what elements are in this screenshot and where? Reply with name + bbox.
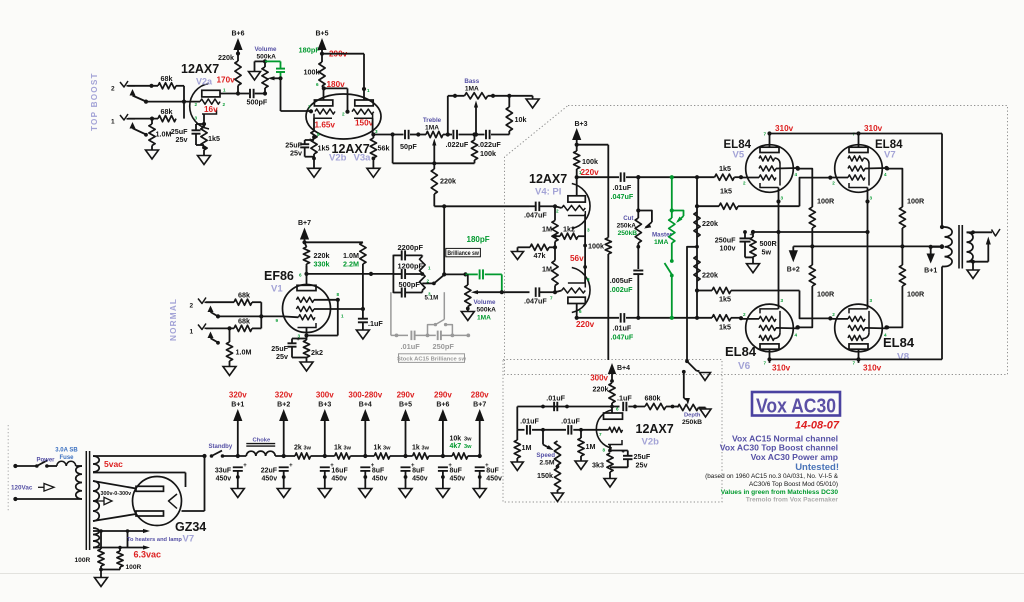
svg-text:500pF: 500pF [399, 280, 421, 289]
EL84 V7 cathode [849, 183, 870, 204]
wire up to bass rail [447, 96, 449, 135]
svg-text:V4: PI: V4: PI [535, 187, 561, 198]
V4 upper grid [562, 205, 586, 210]
label .01uF chain1 [520, 417, 539, 426]
svg-text:68k: 68k [238, 291, 250, 300]
svg-text:250kB: 250kB [682, 419, 702, 426]
label GZ34 [175, 520, 206, 534]
svg-text:2k2: 2k2 [311, 348, 323, 357]
svg-text:500kA: 500kA [477, 307, 497, 314]
potentiometer Cut 250k [635, 175, 652, 243]
ground tremolo cathode [604, 472, 616, 487]
svg-text:1200pF: 1200pF [398, 261, 424, 270]
resistor 1k5 V2a cathode [201, 127, 207, 150]
label 500pF [247, 98, 268, 107]
label 220k PI feed [440, 177, 456, 186]
svg-text:100R: 100R [75, 557, 91, 564]
transformer T1 primary winding [76, 466, 82, 499]
svg-text:.1uF: .1uF [617, 394, 632, 403]
svg-text:3w: 3w [344, 446, 352, 452]
B+ supply arrow B+6 [233, 38, 242, 56]
ground 1.0M normal [223, 361, 236, 376]
label .047uF upper [524, 211, 547, 220]
svg-text:.01uF: .01uF [401, 342, 421, 351]
wire bass rail left [448, 94, 465, 98]
bass wiper arrow [474, 101, 478, 137]
speaker hot arrow [986, 237, 991, 262]
EL84 pin 7 labels [764, 132, 856, 366]
svg-text:.047uF: .047uF [524, 297, 547, 306]
svg-text:2: 2 [195, 102, 198, 107]
resistor 220k tremolo plate load [609, 383, 615, 413]
label 12AX7 V2a [181, 62, 219, 76]
label 8uF 450v [412, 467, 428, 482]
svg-text:3w: 3w [304, 446, 312, 452]
EL84 V6 cathode [760, 304, 779, 314]
svg-text:100k: 100k [480, 149, 496, 158]
resistor 10k tone stack top [506, 96, 512, 135]
resistor 10k 3w (4k7 3w) [452, 453, 468, 459]
svg-text:3: 3 [870, 196, 873, 201]
svg-text:100R: 100R [907, 197, 925, 206]
input jack 2 top boost [120, 81, 136, 96]
resistor 68k normal jack2 [234, 299, 252, 305]
svg-text:25v: 25v [276, 352, 288, 361]
EF86 cathode lead [298, 328, 309, 341]
label 290v at B+6 [434, 391, 452, 400]
resistor 1k5 V7 grid stopper [719, 203, 800, 209]
volume wiper arrow [268, 76, 281, 80]
svg-text:.1uF: .1uF [368, 319, 383, 328]
resistor 100R V6 screen [796, 265, 816, 330]
wire bottom chain start [517, 429, 524, 431]
label jack 2 top boost [111, 86, 115, 93]
capacitor .01uF tremolo chain2 [568, 425, 571, 435]
label V2b tremolo [642, 437, 660, 448]
EL84 V7 control grid g1 [830, 175, 865, 180]
input jack 1 top boost [120, 114, 136, 129]
svg-text:.01uF: .01uF [520, 417, 539, 426]
svg-text:To heaters and lamp: To heaters and lamp [127, 537, 182, 543]
label V2a [196, 77, 213, 87]
B+2 supply arrow down [789, 246, 798, 262]
svg-text:9: 9 [276, 318, 279, 323]
label 8uF 450v [372, 467, 388, 482]
svg-text:310v: 310v [772, 364, 791, 373]
gray stock brilliance switch bypass [428, 292, 453, 335]
resistor 1.0M top boost input [149, 119, 155, 146]
wire B+3 to tail resistor [577, 145, 609, 238]
label 1M upper [542, 225, 552, 234]
wire V2b cathode down [312, 118, 316, 139]
label .022uF second [478, 140, 501, 149]
EL84 pin 4 labels [795, 172, 888, 338]
capacitor 500pF coupling [250, 89, 254, 98]
label Untested! [795, 462, 839, 473]
label 1k2 [563, 225, 575, 234]
svg-text:450v: 450v [486, 475, 502, 482]
pin 2 V3a grid [342, 112, 345, 117]
EF86 grid3 [296, 297, 314, 302]
label 220v PI lower [576, 320, 595, 329]
svg-text:320v: 320v [229, 391, 247, 400]
EL84 pin 2 labels [743, 181, 835, 318]
wire PI lower output [577, 317, 619, 319]
label V1 [271, 284, 283, 295]
V2a grid [200, 99, 220, 104]
svg-text:3: 3 [870, 298, 873, 303]
svg-text:310v: 310v [775, 124, 794, 133]
label 100R V6 [817, 290, 835, 299]
svg-text:(based on 1960 AC15 no.3 0A/03: (based on 1960 AC15 no.3 0A/031, No. V-I… [705, 473, 839, 480]
label .022uF first [446, 140, 469, 149]
label 680k [645, 394, 661, 403]
label Standby [209, 444, 233, 450]
svg-text:B+7: B+7 [298, 220, 311, 227]
svg-text:Vox AC30: Vox AC30 [756, 395, 836, 418]
label 100R V7 [907, 197, 925, 206]
svg-text:300v-0-300v: 300v-0-300v [101, 491, 132, 497]
svg-text:150v: 150v [355, 119, 374, 128]
svg-text:1k: 1k [412, 445, 420, 452]
svg-text:Speed: Speed [536, 452, 555, 459]
wire bottom chain mid [532, 428, 583, 432]
wire plate rail bottom 310v [767, 357, 942, 361]
HT center tap arrow [93, 497, 112, 504]
EF86 control grid [276, 315, 316, 323]
svg-text:180pF: 180pF [467, 235, 490, 244]
gray stock brilliance feed wire [391, 292, 408, 337]
label 1.0M normal [236, 348, 252, 357]
tube 12AX7 V2a envelope arc [190, 84, 209, 129]
jack1 shunt lever [133, 128, 147, 134]
ground OT secondary [967, 262, 979, 279]
wire jack1 tip to 68k [128, 117, 158, 121]
fuse 3.0A SB [57, 461, 76, 466]
label 50pF [400, 142, 417, 151]
label Speed 2.5M [536, 452, 555, 467]
wire tone stack loop right [434, 162, 474, 164]
label date 14-08-07 [795, 420, 840, 432]
svg-text:Power: Power [37, 458, 56, 464]
capacitor .022uF second [486, 130, 490, 139]
label Choke [253, 438, 271, 444]
capacitor 500pF brilliance [393, 288, 422, 298]
svg-text:EL84: EL84 [725, 344, 757, 359]
svg-text:.005uF: .005uF [610, 276, 633, 285]
wire 68k normal join up [252, 316, 261, 328]
svg-text:2: 2 [342, 112, 345, 117]
svg-text:B+2: B+2 [787, 267, 800, 274]
label 1k5 V8 [719, 295, 731, 304]
label B+6 [231, 31, 244, 38]
ground 47k [512, 247, 531, 259]
label 100R V8 [907, 290, 925, 299]
ground EF86 cathode [300, 358, 313, 372]
svg-text:Volume: Volume [255, 46, 277, 53]
gray capacitor 250pF stock [438, 331, 441, 341]
label 1.0M 2.2M [343, 251, 359, 269]
label 100R V5 [817, 197, 835, 206]
labels 310v top [775, 124, 883, 133]
wire standby to choke [223, 454, 247, 458]
resistor 1.0M normal input [226, 328, 232, 361]
svg-text:100k: 100k [588, 242, 604, 251]
svg-text:7: 7 [764, 361, 767, 366]
resistor 500R 5w cathode bias [750, 232, 756, 257]
B+1 supply arrow down [927, 247, 935, 264]
svg-text:5w: 5w [762, 248, 772, 257]
svg-text:1k5: 1k5 [208, 134, 220, 143]
resistor 100k PI tail [605, 238, 611, 360]
label based on line2 [749, 481, 838, 488]
B+ supply arrow B+4 [361, 409, 370, 456]
svg-text:Treble: Treble [423, 117, 442, 124]
wire V2b plate to V3a grid [324, 88, 350, 113]
label Stock AC15 Brilliance sw box [397, 354, 467, 363]
V2a cathode [202, 110, 217, 115]
label 25uF 25v EF86 [271, 344, 288, 361]
label 1200pF [398, 261, 424, 270]
resistor 100R V5 screen [809, 207, 815, 246]
potentiometer Depth 250kB [678, 404, 699, 410]
potentiometer Bass 1MA [465, 93, 488, 99]
label 100k V2b plate load [304, 68, 320, 77]
V2b cathode [314, 114, 332, 119]
label .01uF stock gray [401, 342, 421, 351]
EL84 V7 screen g2 lead [848, 166, 889, 171]
EF86 plate lead [299, 266, 309, 285]
svg-text:V1: V1 [271, 284, 283, 295]
label 280v at B+7 [471, 391, 489, 400]
V2a plate box [202, 90, 220, 97]
label 1k 3w first [334, 445, 352, 452]
svg-text:12AX7: 12AX7 [181, 62, 219, 76]
svg-text:1: 1 [190, 329, 194, 336]
label values in green [721, 489, 839, 496]
resistor 100R V8 screen [885, 265, 905, 329]
wire jack1 tip to 68k normal [206, 326, 234, 330]
label tremolo from vox pacemaker [746, 497, 839, 504]
tube EL84 V6 envelope [746, 304, 794, 352]
resistor 1k 3w third [413, 453, 429, 459]
EL84 V7 plate lead [858, 134, 860, 148]
B+ supply arrow B+5 [401, 409, 410, 456]
resistor 2k 3w [295, 453, 311, 459]
output transformer core [959, 225, 962, 269]
svg-text:.01uF: .01uF [613, 183, 632, 192]
ground below 8uF cap [359, 471, 372, 498]
ground volume top terminal [249, 59, 268, 80]
label V6 [738, 361, 751, 372]
wire bottom rail to OT primary [941, 267, 943, 360]
jack2 shunt lever [133, 96, 147, 102]
svg-text:1k5: 1k5 [719, 295, 731, 304]
svg-text:TOP BOOST: TOP BOOST [90, 72, 99, 131]
label B+4 tremolo [617, 365, 630, 372]
capacitor 25uF 25v V2a cathode bypass [192, 124, 205, 145]
wire between 022 caps [459, 134, 485, 136]
gray wire to 250pF [415, 334, 436, 338]
svg-text:8: 8 [603, 448, 606, 453]
svg-text:2: 2 [111, 86, 115, 93]
node PI divider mid [553, 245, 557, 249]
tremolo dotted enclosure [503, 360, 722, 503]
wire rail B+4 segment [350, 454, 374, 458]
resistor 220k (330k) EF86 plate load [303, 242, 309, 274]
resistor 220k grid leak upper [694, 212, 700, 237]
svg-text:300v: 300v [316, 391, 334, 400]
label 1M tremolo right [586, 442, 596, 451]
svg-text:180pF: 180pF [299, 46, 321, 55]
label 68k normal jack1 [238, 317, 250, 326]
wire to V7 stopper [695, 204, 719, 208]
capacitor 25uF 25v EF86 cathode bypass [288, 337, 307, 358]
wire V2a cathode down [202, 114, 206, 127]
svg-text:100R: 100R [817, 290, 835, 299]
label 1M tremolo left [522, 443, 532, 452]
capacitor 1200pF [393, 269, 422, 279]
resistor 1.0M (2.2M) EF86 screen feed [360, 242, 366, 309]
label 12AX7 tremolo [636, 422, 674, 436]
wire rail B+2 segment [275, 454, 295, 458]
pin 8 tremolo [603, 448, 606, 453]
wire to PI upper input [434, 204, 529, 208]
switch depth enable [682, 359, 697, 373]
EL84 V5 g3 [759, 156, 780, 186]
label 2k2 [311, 348, 323, 357]
wire jack2 tip to 68k [128, 84, 158, 88]
svg-text:1: 1 [367, 88, 370, 93]
svg-text:1: 1 [341, 314, 344, 319]
svg-text:.047uF: .047uF [611, 192, 634, 201]
pin 3 V4 upper [587, 228, 590, 233]
wire rail B+7 segment [468, 454, 482, 458]
resistor 68k normal jack1 [234, 325, 252, 331]
tremolo plate box [604, 413, 623, 419]
label Cut 250kA 250kB [617, 215, 638, 237]
V2b plate box [314, 100, 332, 106]
transformer T1 core [86, 451, 89, 550]
svg-text:7: 7 [599, 432, 602, 437]
svg-text:EF86: EF86 [264, 269, 294, 283]
wire PI upper output [577, 176, 619, 178]
svg-text:68k: 68k [161, 107, 173, 116]
EL84 V7 g3 [848, 156, 869, 186]
potentiometer Volume 500kA top boost [262, 61, 268, 93]
svg-text:.022uF: .022uF [478, 140, 501, 149]
capacitor 8uF 450v at B+7 [475, 463, 489, 471]
svg-text:25v: 25v [176, 135, 188, 144]
label 100R right [126, 564, 142, 571]
pin 8 V2b [317, 132, 320, 137]
output transformer primary [942, 227, 952, 267]
svg-text:8: 8 [587, 277, 590, 282]
svg-text:250pF: 250pF [433, 342, 455, 351]
EF86 g3 lead [314, 292, 340, 302]
ground bass rail [526, 96, 539, 108]
svg-text:.002uF: .002uF [610, 285, 633, 294]
label TOP BOOST channel [90, 72, 99, 131]
label 5.1M [425, 295, 439, 302]
ground below 8uF cap [436, 471, 449, 498]
label B+7 tap [473, 402, 486, 409]
label 12AX7 V2b V3a [332, 142, 370, 156]
label B+5 preamp [315, 31, 328, 38]
label 8uF 450v [486, 467, 502, 482]
svg-text:V3a: V3a [354, 153, 372, 164]
EL84 V6 screen g2 lead [759, 325, 800, 330]
wire GZ34 cathode output to node [182, 456, 205, 511]
svg-text:1M: 1M [586, 442, 596, 451]
svg-text:1k: 1k [334, 445, 342, 452]
wire to V4 lower grid [539, 290, 561, 300]
svg-text:Volume: Volume [474, 299, 496, 306]
label 56v PI cathodes [570, 254, 584, 263]
resistor 1k2 PI cathode bias [553, 233, 585, 239]
svg-text:7: 7 [853, 361, 856, 366]
heater wire top with arrow [93, 529, 150, 533]
svg-text:B+3: B+3 [574, 121, 587, 128]
svg-text:2: 2 [556, 209, 559, 214]
jack1 normal shunt lever [211, 338, 220, 344]
label V5 [733, 150, 745, 161]
EL84 V6 plate lead [769, 349, 771, 363]
EL84 V6 g3 [759, 311, 780, 341]
capacitor 180pF normal bright (green) [466, 269, 502, 292]
svg-text:1k: 1k [374, 445, 382, 452]
wire cathode follower output [373, 132, 403, 136]
svg-text:100v: 100v [720, 244, 736, 253]
label 25uF 25v V2a [171, 127, 188, 144]
svg-text:2k: 2k [294, 445, 302, 452]
wire heater tap join [127, 531, 129, 548]
wire switch to depth pot [684, 372, 688, 401]
label jack 2 normal [190, 303, 194, 310]
resistor 100R heater balance right [117, 548, 123, 568]
svg-text:2: 2 [190, 303, 194, 310]
B+ supply arrow B+6 [438, 409, 447, 456]
svg-text:V5: V5 [733, 150, 745, 161]
tube EL84 V7 envelope [835, 145, 883, 193]
svg-text:NORMAL: NORMAL [169, 298, 178, 341]
svg-text:2: 2 [743, 312, 746, 317]
svg-text:1MA: 1MA [654, 239, 668, 246]
svg-text:B+5: B+5 [399, 402, 412, 409]
wire HT bottom tap to GZ34 plate 2 [93, 514, 136, 521]
svg-text:100R: 100R [907, 290, 925, 299]
label B+3 tap [318, 402, 331, 409]
OT primary center tap [929, 245, 944, 249]
svg-text:Cut: Cut [623, 215, 633, 222]
label 320v at B+1 [229, 391, 247, 400]
gray wire right stock [441, 334, 470, 338]
svg-text:EL84: EL84 [883, 335, 915, 350]
EF86 screen grid to node [296, 306, 365, 318]
brilliance switch lever [434, 274, 445, 283]
ground 1.0M top boost [146, 146, 159, 160]
wire screen rail B+2 [793, 244, 944, 248]
label Vox AC15 Normal channel [732, 434, 838, 444]
svg-text:1.65v: 1.65v [315, 121, 336, 130]
wire volume wiper to PI lower input [502, 291, 530, 293]
label 180v V2b plate [327, 80, 346, 89]
svg-text:2: 2 [223, 102, 226, 107]
label 1.0M top boost [156, 130, 172, 139]
label 1k 3w third [412, 445, 430, 452]
transformer T1 5vac winding [93, 456, 99, 472]
svg-text:B+1: B+1 [231, 402, 244, 409]
